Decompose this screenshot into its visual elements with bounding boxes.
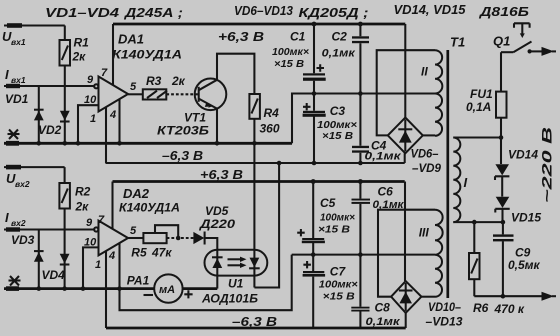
svg-text:I: I: [464, 175, 468, 190]
capacitor C4: [359, 94, 361, 164]
transistor VT1: [195, 79, 227, 111]
wire winding I bottom node: [453, 221, 503, 223]
svg-text:C5: C5: [320, 196, 336, 210]
wire R3 to VT1 base: [166, 93, 198, 95]
svg-text:0,1мк: 0,1мк: [322, 48, 357, 60]
ground symbol common 1: [8, 130, 20, 140]
svg-text:III: III: [419, 226, 430, 240]
bridge rectifier VD6-VD9: [388, 118, 423, 154]
svg-text:+6,3 В: +6,3 В: [218, 29, 264, 44]
pin 4 wire DA1: [118, 99, 120, 143]
transformer T1 winding I: [453, 138, 460, 223]
-6.3V rail (bottom): [106, 327, 406, 330]
svg-text:VD15: VD15: [511, 211, 541, 225]
minus sign PA1: [144, 294, 154, 296]
capacitor C1: [313, 24, 315, 94]
svg-text:VD10–: VD10–: [428, 300, 461, 314]
svg-text:0,1мк: 0,1мк: [366, 316, 402, 328]
svg-text:I: I: [5, 67, 9, 82]
svg-text:4: 4: [109, 109, 116, 121]
svg-text:0,5мк: 0,5мк: [508, 258, 541, 272]
svg-text:VD1: VD1: [5, 92, 29, 106]
svg-text:9: 9: [86, 217, 93, 229]
capacitor C3: [313, 94, 315, 164]
U1 coupling arrows: [228, 258, 243, 260]
svg-text:АОД101Б: АОД101Б: [201, 292, 259, 306]
svg-text:×15 В: ×15 В: [322, 130, 353, 142]
pin 10 wire DA2: [83, 247, 99, 288]
op-amp DA1: [99, 77, 129, 112]
wire bridge2 bottom to -6.3 rail: [405, 313, 407, 328]
plus sign PA1: [184, 290, 192, 298]
plus sign C3: [303, 103, 311, 110]
wire VD15 to node: [501, 209, 503, 222]
capacitor C8: [359, 255, 361, 328]
wire U1 photodiode top feedback column: [253, 143, 255, 250]
diode VD1: [34, 111, 44, 121]
wire R4 bottom: [253, 119, 255, 144]
bridge rectifier VD10-VD13: [391, 281, 421, 313]
svg-text:VD14, VD15: VD14, VD15: [394, 2, 467, 17]
svg-text:7: 7: [101, 67, 108, 79]
svg-text:9: 9: [87, 74, 94, 86]
svg-text:5: 5: [130, 225, 137, 237]
svg-text:470 к: 470 к: [494, 302, 525, 316]
pin 7 wire DA2: [111, 182, 113, 229]
input terminal Iвх1: [4, 85, 95, 87]
pin 1 wire DA1: [105, 107, 107, 163]
resistor R1: [64, 26, 66, 87]
capacitor C2: [359, 24, 361, 94]
wire FU1 node down to VD14: [500, 138, 502, 165]
svg-text:VD2: VD2: [38, 123, 62, 137]
svg-text:10: 10: [84, 94, 97, 106]
svg-text:1: 1: [95, 259, 101, 271]
mains bottom wire with arrow: [474, 295, 542, 297]
wire VD1 column: [38, 86, 40, 143]
svg-text:–6,3 В: –6,3 В: [232, 314, 277, 329]
resistor R6: [473, 222, 475, 296]
diode VD5: [193, 232, 204, 244]
svg-text:Д816Б: Д816Б: [479, 4, 529, 19]
diode VD3: [34, 252, 44, 262]
meter PA1: [154, 274, 182, 302]
+6.3V rail (top): [113, 23, 405, 26]
capacitor C7: [312, 255, 314, 328]
node common rail 1 (-input common): [4, 142, 292, 145]
diode VD4: [60, 254, 70, 264]
plus sign C5: [297, 229, 305, 236]
fuse FU1: [500, 52, 502, 137]
wire VD5 to optocoupler: [205, 238, 218, 250]
svg-text:R6: R6: [473, 301, 489, 315]
pin 5 output wire DA1: [128, 93, 143, 95]
svg-text:2к: 2к: [72, 50, 87, 64]
resistor R2: [64, 167, 66, 229]
svg-text:C1: C1: [290, 30, 306, 44]
resistor R5: [143, 233, 166, 243]
pin 4 wire DA2 to C5/C7 node: [120, 243, 292, 310]
wire VD2 column: [64, 86, 66, 143]
svg-text:7: 7: [98, 214, 105, 226]
svg-text:мА: мА: [159, 284, 175, 296]
input terminal Uвх2: [4, 166, 65, 168]
op-amp DA2: [99, 221, 129, 256]
ground symbol common 2: [9, 276, 21, 286]
wire bridge1 bottom to line2: [404, 153, 406, 163]
svg-text:R5: R5: [131, 246, 147, 260]
capacitor C5: [312, 182, 314, 255]
svg-text:1: 1: [90, 113, 96, 125]
mid wire (line2, -6.3V of top section): [106, 162, 405, 164]
wire U1 photodiode bottom to line2 riser: [253, 276, 255, 288]
wire U1 LED cathode to common: [216, 276, 218, 289]
capacitor C6: [359, 182, 361, 255]
transformer T1 winding II: [435, 50, 442, 136]
svg-text:VD14: VD14: [508, 148, 538, 162]
pin 10 wire DA1: [78, 105, 99, 143]
svg-text:2к: 2к: [171, 74, 186, 88]
plus sign C7: [303, 261, 311, 268]
svg-text:100мк×: 100мк×: [272, 46, 309, 58]
svg-text:вх2: вх2: [15, 179, 30, 189]
wire bridge2 top to rail2: [404, 182, 406, 282]
svg-text:10: 10: [84, 237, 97, 249]
capacitor C9: [502, 222, 504, 296]
wire bridge1 right vertex to winding II bottom: [423, 134, 435, 136]
node line (C5/C7 midpoint to winding III tap): [292, 254, 435, 256]
svg-text:R4: R4: [264, 106, 280, 120]
wire R5 to VD5: [167, 237, 194, 239]
svg-text:Д245А ;: Д245А ;: [124, 5, 183, 20]
svg-text:C6: C6: [378, 185, 394, 199]
svg-text:VD6–VD13: VD6–VD13: [234, 3, 294, 18]
svg-text:КД205Д ;: КД205Д ;: [299, 5, 369, 20]
svg-text:47к: 47к: [151, 246, 172, 260]
svg-text:вх1: вх1: [11, 37, 26, 47]
input terminal Uвх1: [4, 24, 65, 26]
svg-text:–VD9: –VD9: [412, 161, 441, 175]
svg-text:100мк×: 100мк×: [320, 212, 355, 224]
wire VD3 column: [38, 230, 40, 289]
svg-text:C8: C8: [375, 301, 391, 315]
wire VD14 to VD15: [501, 176, 503, 196]
svg-text:360: 360: [260, 122, 280, 136]
svg-text:2к: 2к: [75, 200, 90, 214]
svg-text:КТ203Б: КТ203Б: [157, 124, 210, 138]
svg-text:К140УД1А: К140УД1А: [112, 48, 182, 62]
svg-text:0,1мк: 0,1мк: [365, 151, 403, 163]
wire bridge2 right vertex to winding III bottom: [421, 296, 435, 298]
wire winding I top to FU1: [453, 136, 501, 138]
wire bridge1 left vertex / winding II top: [377, 50, 435, 135]
svg-text:Q1: Q1: [493, 34, 510, 49]
svg-text:U1: U1: [228, 277, 244, 291]
svg-text:+6,3 В: +6,3 В: [200, 167, 243, 182]
svg-text:R1: R1: [74, 36, 90, 50]
node line (C1/C3 midpoint to winding II tap): [292, 94, 435, 144]
U1 photodiode: [253, 250, 255, 276]
wire line2 to optocoupler photodiode bottom: [254, 163, 279, 288]
svg-text:Д220: Д220: [199, 217, 236, 231]
R5 wiper jumper: [155, 225, 178, 238]
zener VD14: [495, 164, 509, 175]
resistor R3: [143, 89, 167, 99]
wire bridge1 top to rail: [404, 24, 406, 118]
svg-text:~220 В: ~220 В: [539, 127, 555, 203]
optocoupler U1: [205, 250, 268, 276]
svg-text:I: I: [5, 210, 9, 225]
svg-text:4: 4: [108, 250, 115, 262]
svg-text:×15 В: ×15 В: [323, 291, 355, 303]
svg-text:100мк×: 100мк×: [319, 279, 358, 291]
transformer T1 winding III: [435, 210, 443, 297]
svg-text:×15 В: ×15 В: [318, 224, 350, 236]
pin 1 wire DA2: [105, 251, 107, 328]
svg-text:FU1: FU1: [470, 87, 493, 101]
svg-text:–6,3 В: –6,3 В: [162, 148, 203, 163]
svg-text:5: 5: [130, 81, 137, 93]
svg-text:DA1: DA1: [118, 32, 144, 47]
wire VT1 collector to R4: [217, 54, 254, 94]
input terminal Iвх2: [4, 228, 95, 230]
resistor R4: [249, 94, 260, 119]
plus sign C1: [317, 64, 325, 71]
svg-text:вх1: вх1: [11, 75, 26, 85]
svg-text:DA2: DA2: [123, 186, 150, 201]
svg-text:VD5: VD5: [205, 204, 229, 218]
svg-text:×15 В: ×15 В: [274, 58, 304, 70]
wire bridge2 left vertex / winding III top: [378, 210, 435, 297]
transformer core: [446, 50, 449, 298]
pin 7 wire DA1: [112, 24, 114, 85]
svg-text:R3: R3: [146, 74, 162, 88]
common rail 2 with PA1: [4, 287, 154, 290]
svg-text:PA1: PA1: [127, 274, 150, 288]
svg-text:VD6–: VD6–: [411, 147, 439, 161]
svg-text:VT1: VT1: [184, 111, 206, 125]
svg-text:II: II: [421, 65, 428, 79]
svg-text:вх2: вх2: [11, 218, 26, 228]
svg-text:VD1–VD4: VD1–VD4: [45, 5, 120, 20]
svg-text:К140УД1А: К140УД1А: [119, 201, 180, 215]
svg-text:C7: C7: [330, 265, 347, 279]
svg-text:–VD13: –VD13: [426, 315, 463, 329]
svg-text:0,1А: 0,1А: [466, 100, 491, 114]
svg-text:VD4: VD4: [42, 268, 66, 282]
pin 5 output wire DA2: [128, 237, 143, 239]
switch Q1: [501, 51, 513, 53]
zener VD15: [496, 197, 510, 208]
U1 LED: [216, 250, 218, 276]
Q1 actuator: [514, 23, 530, 33]
svg-text:T1: T1: [450, 35, 465, 50]
svg-text:VD3: VD3: [11, 233, 35, 247]
svg-text:C3: C3: [330, 104, 346, 118]
svg-text:C2: C2: [332, 30, 348, 44]
wire VT1 emitter down: [216, 109, 218, 144]
+6.3V rail (bottom section): [113, 180, 405, 183]
diode VD2: [60, 111, 70, 121]
wire VD4 column: [64, 230, 66, 289]
svg-text:R2: R2: [75, 185, 91, 199]
